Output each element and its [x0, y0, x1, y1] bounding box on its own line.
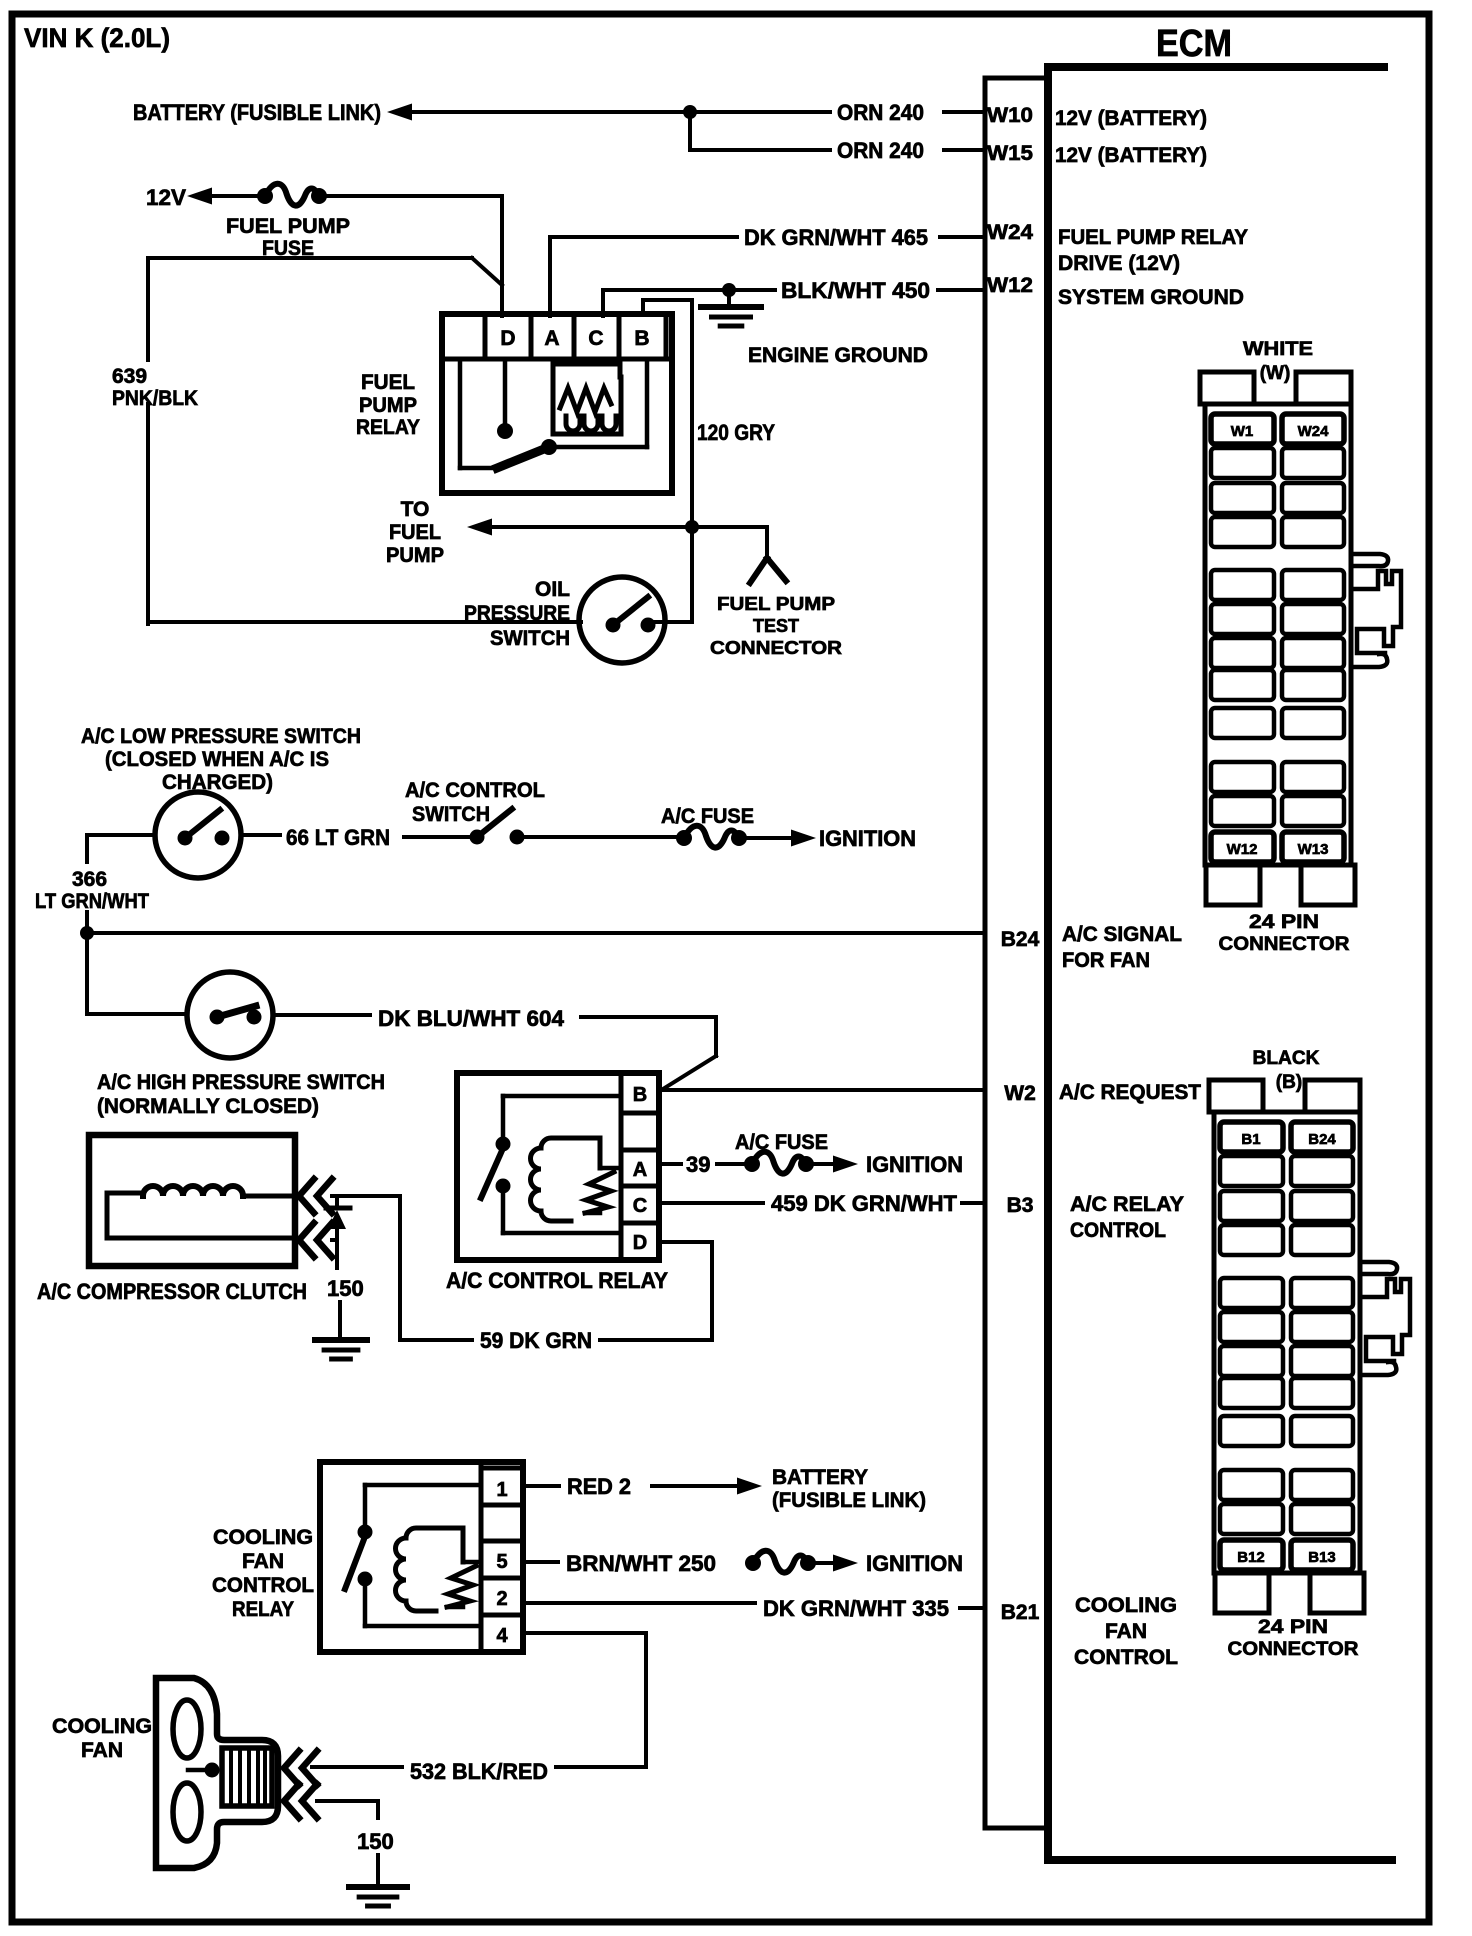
wire ORN 240 to W15 — [690, 112, 985, 150]
svg-text:39: 39 — [686, 1152, 710, 1177]
ECM pin strip — [985, 78, 1048, 1828]
wire ORN 240 to W10 — [387, 104, 985, 121]
svg-text:A: A — [544, 327, 559, 350]
wire label 39 — [686, 1152, 710, 1177]
ECM pin W15 — [987, 142, 1033, 165]
svg-text:PRESSURE: PRESSURE — [464, 602, 570, 625]
svg-text:TEST: TEST — [753, 616, 799, 636]
svg-text:150: 150 — [357, 1829, 394, 1854]
white 24 pin connector title — [1243, 339, 1313, 384]
wire label 366 LT GRN/WHT — [35, 868, 149, 913]
ECM pin W24 — [987, 221, 1033, 244]
svg-text:12V (BATTERY): 12V (BATTERY) — [1055, 107, 1207, 130]
svg-text:B: B — [634, 327, 649, 350]
relay K1 output wire B to common — [549, 361, 647, 447]
wire BRN/WHT 250 to ignition — [523, 1551, 858, 1573]
label A/C CONTROL RELAY — [446, 1268, 668, 1293]
fan ground wire 150 — [317, 1801, 378, 1886]
ECM pin W10 — [987, 104, 1033, 127]
svg-text:A/C HIGH PRESSURE SWITCH: A/C HIGH PRESSURE SWITCH — [97, 1071, 385, 1094]
A/C low pressure switch S2 — [87, 792, 280, 878]
svg-text:RELAY: RELAY — [232, 1598, 294, 1621]
svg-text:(FUSIBLE LINK): (FUSIBLE LINK) — [772, 1489, 926, 1512]
svg-text:SWITCH: SWITCH — [490, 627, 570, 650]
relay K2 pin A label — [633, 1159, 647, 1181]
svg-text:D: D — [500, 327, 515, 350]
fuel pump test connector symbol — [692, 527, 786, 583]
white connector caption — [1219, 912, 1350, 955]
wire label 59 DK GRN — [480, 1328, 592, 1353]
svg-text:FAN: FAN — [242, 1550, 284, 1573]
svg-text:BATTERY (FUSIBLE LINK): BATTERY (FUSIBLE LINK) — [133, 100, 381, 125]
wire label BRN/WHT 250 — [566, 1551, 716, 1576]
svg-text:COOLING: COOLING — [1075, 1594, 1177, 1617]
title VIN K (2.0L) — [24, 23, 170, 53]
label A/C REQUEST — [1059, 1081, 1201, 1104]
relay K3 pin 5 label — [496, 1551, 507, 1573]
svg-text:532 BLK/RED: 532 BLK/RED — [410, 1759, 548, 1784]
wire fused 12V to relay pin D — [500, 196, 504, 316]
svg-text:A/C CONTROL RELAY: A/C CONTROL RELAY — [446, 1268, 668, 1293]
label ENGINE GROUND — [748, 344, 928, 367]
clutch connector chevrons upper — [299, 1179, 332, 1213]
relay K1 pin A label — [544, 327, 559, 350]
svg-text:W12: W12 — [1227, 841, 1258, 858]
wire TO FUEL PUMP arrow — [467, 519, 692, 536]
svg-text:A/C CONTROL: A/C CONTROL — [405, 779, 545, 802]
black 24 pin connector — [1209, 1080, 1410, 1613]
svg-text:120 GRY: 120 GRY — [697, 420, 775, 445]
svg-text:DK GRN/WHT 465: DK GRN/WHT 465 — [744, 225, 928, 250]
svg-text:1: 1 — [496, 1479, 507, 1501]
svg-text:FUEL: FUEL — [389, 521, 441, 544]
svg-text:C: C — [633, 1195, 647, 1217]
svg-text:FAN: FAN — [1105, 1620, 1147, 1643]
relay K2 switch contact — [481, 1096, 621, 1233]
svg-text:150: 150 — [327, 1276, 364, 1301]
wire label 150 (clutch) — [327, 1276, 364, 1301]
svg-text:459 DK GRN/WHT: 459 DK GRN/WHT — [771, 1191, 958, 1216]
wire label 639 PNK/BLK — [112, 365, 198, 410]
label TO FUEL PUMP — [386, 498, 444, 567]
wire label 120 GRY — [697, 420, 775, 445]
svg-text:2: 2 — [496, 1588, 507, 1610]
fuel pump relay K1 body — [442, 314, 672, 493]
relay K2 pin B label — [633, 1084, 647, 1106]
svg-text:CONNECTOR: CONNECTOR — [1228, 1639, 1359, 1660]
ECM pin B21 — [1001, 1601, 1040, 1624]
svg-text:5: 5 — [496, 1551, 507, 1573]
svg-text:A: A — [633, 1159, 647, 1181]
label 12V — [146, 185, 186, 210]
svg-text:12V: 12V — [146, 185, 186, 210]
wire label DK BLU/WHT 604 — [378, 1006, 565, 1031]
ECM title — [1156, 23, 1232, 65]
svg-text:366: 366 — [72, 868, 107, 891]
wire label 150 (fan) — [357, 1829, 394, 1854]
svg-text:FUEL PUMP: FUEL PUMP — [717, 594, 835, 614]
svg-text:W24: W24 — [1298, 423, 1330, 440]
svg-text:59 DK GRN: 59 DK GRN — [480, 1328, 592, 1353]
svg-text:66 LT GRN: 66 LT GRN — [286, 825, 390, 850]
A/C control relay K2 body — [457, 1073, 659, 1260]
wire label DK GRN/WHT 465 — [744, 225, 928, 250]
svg-text:A/C REQUEST: A/C REQUEST — [1059, 1081, 1201, 1104]
svg-text:WHITE: WHITE — [1243, 339, 1313, 360]
svg-text:DK GRN/WHT 335: DK GRN/WHT 335 — [763, 1596, 949, 1621]
svg-text:IGNITION: IGNITION — [866, 1551, 963, 1576]
svg-text:OIL: OIL — [535, 578, 570, 601]
relay K3 pin 4 label — [496, 1625, 508, 1647]
oil pressure switch S1 — [579, 577, 692, 663]
label 12V (BATTERY) W15 — [1055, 144, 1207, 167]
svg-text:ENGINE GROUND: ENGINE GROUND — [748, 344, 928, 367]
engine ground symbol — [701, 290, 761, 326]
label 12V (BATTERY) W10 — [1055, 107, 1207, 130]
svg-text:W24: W24 — [987, 221, 1033, 244]
label IGNITION (fan row) — [866, 1551, 963, 1576]
wire 120 GRY (relay B to fuel pump) — [643, 300, 692, 622]
svg-text:W1: W1 — [1231, 423, 1254, 440]
wire label 459 DK GRN/WHT — [771, 1191, 958, 1216]
cooling fan control relay K3 body — [320, 1462, 523, 1652]
relay K1 pin C label — [588, 327, 603, 350]
svg-text:24 PIN: 24 PIN — [1258, 1617, 1328, 1638]
label A/C FUSE (ignition row) — [661, 805, 754, 828]
svg-text:B: B — [633, 1084, 647, 1106]
svg-text:CONTROL: CONTROL — [1070, 1219, 1166, 1242]
svg-text:A/C SIGNAL: A/C SIGNAL — [1062, 923, 1182, 946]
cooling fan motor M1 — [156, 1678, 278, 1868]
wire label DK GRN/WHT 335 — [763, 1596, 949, 1621]
wire A/C signal to B24 — [87, 931, 985, 935]
relay K3 pin 1 label — [496, 1479, 507, 1501]
relay K2 coil — [531, 1138, 622, 1221]
wire label BLK/WHT 450 — [781, 278, 930, 303]
relay K3 switch contact — [345, 1485, 481, 1626]
svg-text:CONTROL: CONTROL — [1074, 1646, 1178, 1669]
label A/C SIGNAL FOR FAN — [1062, 923, 1182, 972]
svg-text:B1: B1 — [1241, 1131, 1260, 1148]
relay K1 switch contact — [460, 359, 557, 468]
relay K3 pin 2 label — [496, 1588, 507, 1610]
wire label 532 BLK/RED — [410, 1759, 548, 1784]
relay K2 pin C label — [633, 1195, 647, 1217]
svg-text:ECM: ECM — [1156, 23, 1232, 65]
svg-text:RELAY: RELAY — [356, 416, 420, 439]
svg-text:ORN 240: ORN 240 — [837, 100, 924, 125]
label A/C LOW PRESSURE SWITCH — [81, 725, 361, 794]
svg-text:B13: B13 — [1308, 1549, 1336, 1566]
label FUEL PUMP RELAY DRIVE (12V) — [1058, 226, 1248, 275]
svg-text:24 PIN: 24 PIN — [1249, 912, 1319, 933]
label COOLING FAN — [52, 1715, 152, 1762]
wire DK GRN/WHT 465 (relay A to W24) — [550, 237, 985, 316]
label OIL PRESSURE SWITCH — [464, 578, 570, 650]
wire 459 DK GRN/WHT (to B3) — [659, 1201, 985, 1205]
relay K2 pin D label — [633, 1232, 647, 1254]
label A/C RELAY CONTROL — [1070, 1193, 1184, 1242]
svg-text:B12: B12 — [1237, 1549, 1265, 1566]
clutch ground wire 150 — [337, 1262, 340, 1338]
svg-text:LT GRN/WHT: LT GRN/WHT — [35, 890, 149, 913]
wire A/C request to W2 — [663, 1088, 985, 1092]
svg-text:BLACK: BLACK — [1253, 1048, 1320, 1069]
fan connector chevrons upper — [284, 1751, 317, 1785]
svg-text:B24: B24 — [1001, 928, 1040, 951]
svg-text:VIN K (2.0L): VIN K (2.0L) — [24, 23, 170, 53]
svg-text:IGNITION: IGNITION — [866, 1152, 963, 1177]
label A/C COMPRESSOR CLUTCH — [37, 1279, 307, 1304]
svg-text:ORN 240: ORN 240 — [837, 138, 924, 163]
svg-text:W13: W13 — [1298, 841, 1329, 858]
svg-text:W12: W12 — [987, 274, 1033, 297]
svg-text:CONTROL: CONTROL — [212, 1574, 314, 1597]
svg-text:A/C RELAY: A/C RELAY — [1070, 1193, 1184, 1216]
svg-text:PNK/BLK: PNK/BLK — [112, 387, 198, 410]
svg-text:W15: W15 — [987, 142, 1033, 165]
wire DK GRN/WHT 335 (to B21) — [523, 1603, 985, 1608]
svg-text:DRIVE (12V): DRIVE (12V) — [1058, 252, 1180, 275]
label BATTERY (FUSIBLE LINK) right — [772, 1466, 926, 1512]
wire BLK/WHT 450 (relay C to W12) — [603, 283, 985, 316]
white 24 pin connector — [1200, 372, 1401, 905]
wire 39 to ignition — [659, 1152, 858, 1174]
svg-text:COOLING: COOLING — [52, 1715, 152, 1738]
junction dot fuel pump node — [685, 520, 699, 534]
svg-text:BLK/WHT 450: BLK/WHT 450 — [781, 278, 930, 303]
fan connector chevrons lower — [284, 1784, 317, 1818]
clutch connector chevrons lower — [299, 1223, 332, 1257]
ground symbol (clutch) — [315, 1340, 367, 1359]
svg-text:W2: W2 — [1004, 1082, 1036, 1105]
svg-text:A/C FUSE: A/C FUSE — [735, 1131, 828, 1154]
svg-text:(CLOSED WHEN A/C IS: (CLOSED WHEN A/C IS — [105, 748, 329, 771]
svg-text:RED 2: RED 2 — [567, 1474, 631, 1499]
label A/C CONTROL SWITCH — [405, 779, 545, 826]
svg-text:B3: B3 — [1007, 1194, 1034, 1217]
svg-text:D: D — [633, 1232, 647, 1254]
svg-text:PUMP: PUMP — [359, 394, 417, 417]
relay K3 coil — [396, 1528, 482, 1611]
wire 366 LT GRN/WHT — [80, 835, 94, 1014]
label A/C HIGH PRESSURE SWITCH — [97, 1071, 385, 1118]
svg-text:BATTERY: BATTERY — [772, 1466, 868, 1489]
label FUEL PUMP RELAY — [356, 371, 420, 439]
svg-text:639: 639 — [112, 365, 147, 388]
wire label 66 LT GRN — [286, 825, 390, 850]
label FUEL PUMP FUSE — [226, 215, 350, 260]
relay K1 coil — [553, 359, 621, 434]
svg-text:CONNECTOR: CONNECTOR — [710, 638, 842, 658]
svg-text:PUMP: PUMP — [386, 544, 444, 567]
svg-text:B21: B21 — [1001, 1601, 1040, 1624]
ground symbol (fan) — [349, 1887, 407, 1906]
ECM pin B3 — [1007, 1194, 1034, 1217]
clutch hot wire to 59 DK GRN — [332, 1194, 400, 1198]
svg-text:FUEL PUMP RELAY: FUEL PUMP RELAY — [1058, 226, 1248, 249]
A/C control switch S3 — [404, 809, 678, 845]
A/C compressor clutch coil — [89, 1135, 295, 1266]
svg-text:A/C FUSE: A/C FUSE — [661, 805, 754, 828]
svg-text:TO: TO — [401, 498, 430, 521]
svg-text:12V (BATTERY): 12V (BATTERY) — [1055, 144, 1207, 167]
svg-text:SWITCH: SWITCH — [412, 803, 490, 826]
relay K1 pin B label — [634, 327, 649, 350]
svg-text:A/C LOW PRESSURE SWITCH: A/C LOW PRESSURE SWITCH — [81, 725, 361, 748]
svg-text:FUEL: FUEL — [361, 371, 415, 394]
wire 639 PNK/BLK — [148, 258, 581, 624]
svg-text:(B): (B) — [1276, 1072, 1302, 1093]
svg-text:FOR FAN: FOR FAN — [1062, 949, 1150, 972]
svg-text:C: C — [588, 327, 603, 350]
label IGNITION (39 row) — [866, 1152, 963, 1177]
wire label ORN 240 (W15) — [837, 138, 924, 163]
ECM pin W2 — [1004, 1082, 1036, 1105]
svg-text:W10: W10 — [987, 104, 1033, 127]
relay K1 pin D label — [500, 327, 515, 350]
label COOLING FAN CONTROL — [1074, 1594, 1178, 1669]
svg-text:CHARGED): CHARGED) — [162, 771, 273, 794]
label COOLING FAN CONTROL RELAY — [212, 1526, 314, 1621]
wire label RED 2 — [567, 1474, 631, 1499]
A/C high pressure switch S4 — [87, 972, 370, 1058]
wire 59 DK GRN (relay D to clutch) — [400, 1196, 712, 1340]
black 24 pin connector title — [1253, 1048, 1320, 1093]
label A/C FUSE (39 row) — [735, 1131, 828, 1154]
black connector caption — [1228, 1617, 1359, 1660]
ECM pin W12 — [987, 274, 1033, 297]
wire RED 2 to battery — [523, 1478, 762, 1495]
fuel pump fuse F1 — [187, 184, 502, 206]
wire relay pin4 to fan (532 BLK/RED) — [312, 1633, 646, 1767]
svg-text:COOLING: COOLING — [213, 1526, 313, 1549]
svg-text:FAN: FAN — [81, 1739, 123, 1762]
wire DK BLU/WHT 604 — [581, 1017, 716, 1089]
A/C fuse F2 — [676, 826, 816, 848]
ECM pin B24 — [1001, 928, 1040, 951]
label SYSTEM GROUND — [1058, 286, 1244, 309]
svg-text:(W): (W) — [1260, 363, 1291, 384]
svg-text:A/C COMPRESSOR CLUTCH: A/C COMPRESSOR CLUTCH — [37, 1279, 307, 1304]
label FUEL PUMP TEST CONNECTOR — [710, 594, 842, 658]
svg-text:B24: B24 — [1308, 1131, 1336, 1148]
svg-text:IGNITION: IGNITION — [819, 826, 916, 851]
svg-text:BRN/WHT 250: BRN/WHT 250 — [566, 1551, 716, 1576]
clutch diode CR1 — [326, 1196, 350, 1262]
svg-text:SYSTEM GROUND: SYSTEM GROUND — [1058, 286, 1244, 309]
svg-text:DK BLU/WHT 604: DK BLU/WHT 604 — [378, 1006, 565, 1031]
svg-text:FUEL PUMP: FUEL PUMP — [226, 215, 350, 238]
svg-text:CONNECTOR: CONNECTOR — [1219, 934, 1350, 955]
svg-text:(NORMALLY CLOSED): (NORMALLY CLOSED) — [97, 1095, 319, 1118]
svg-text:4: 4 — [496, 1625, 508, 1647]
label IGNITION (A/C fuse) — [819, 826, 916, 851]
wire label ORN 240 (W10) — [837, 100, 924, 125]
label BATTERY (FUSIBLE LINK) — [133, 100, 381, 125]
ECM box outline — [1048, 67, 1392, 1860]
